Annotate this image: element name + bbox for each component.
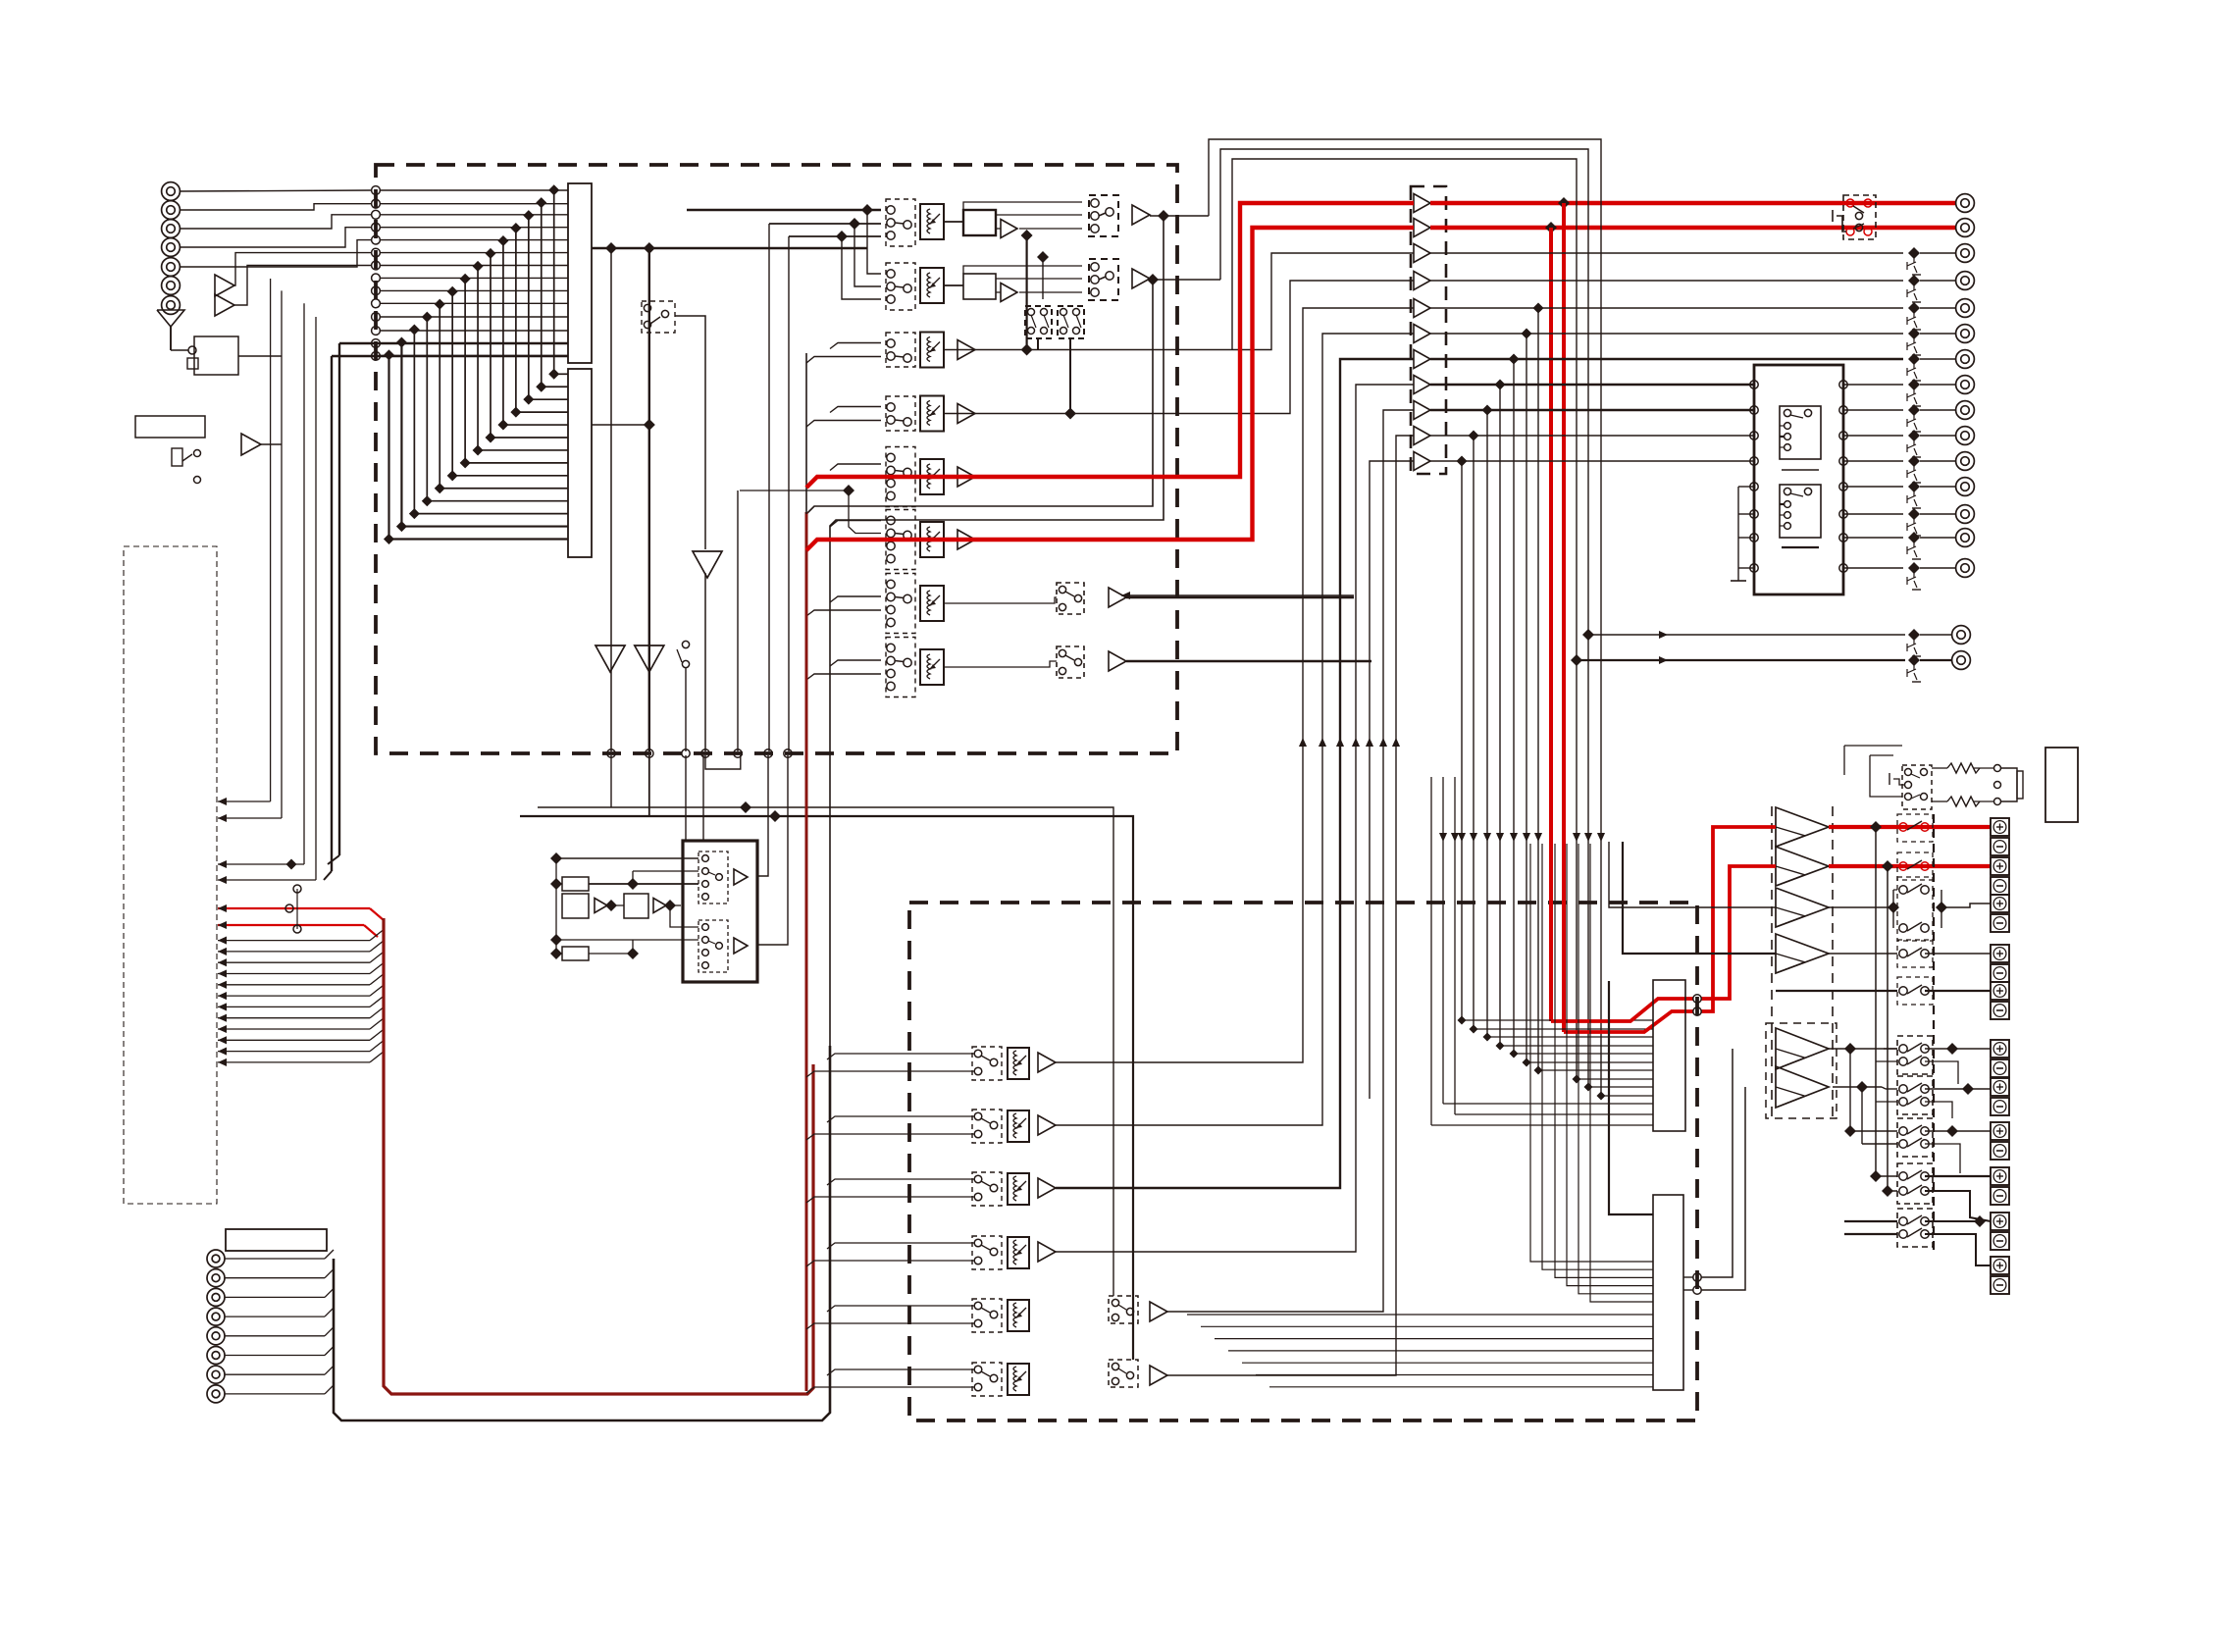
riser arrow 6 (1392, 738, 1400, 747)
input switch row8 (886, 638, 915, 697)
mute link 13 (1920, 567, 1955, 569)
mute 5 (1907, 353, 1921, 381)
bus row 8 (380, 277, 568, 279)
lower switch row4 (972, 1236, 1002, 1269)
mute link 3 (1920, 307, 1955, 309)
mute 11 (1907, 508, 1921, 536)
wire jack3 (180, 215, 372, 229)
buffer row5 (957, 467, 975, 487)
spk terminal 10 (1991, 1213, 2009, 1250)
block node R 524 (1839, 510, 1847, 518)
matrix tap 3 (523, 210, 568, 405)
phono buf B (734, 938, 748, 954)
selector input node 6 (372, 248, 381, 257)
bus row 4 (380, 227, 568, 229)
monitor bold 1 (328, 343, 380, 864)
analog input selector block (dashed) (376, 165, 1177, 753)
B feed riser 1 (1701, 1049, 1733, 1277)
red out 1 (1430, 201, 1955, 206)
bus arrow red 2 (218, 921, 378, 937)
bus arrow red 1 (218, 904, 384, 920)
block node R 579 (1839, 564, 1847, 572)
mute 7 (1907, 404, 1921, 432)
rec out jack 12 (1956, 529, 1975, 547)
rectB out 1 (1683, 1276, 1693, 1278)
matrix tap 4 (510, 223, 568, 418)
buf out 7 (1430, 358, 1903, 360)
row1 out wire (1150, 210, 1209, 222)
row2 out wire (1147, 274, 1220, 285)
lower relay row5 (1109, 1296, 1138, 1323)
red relay (tape2) (1833, 195, 1876, 239)
stair drop 7 (1457, 456, 1654, 1025)
riser t11 (1366, 461, 1414, 1099)
mute link 10 (1920, 486, 1955, 488)
rectB out 2 (1683, 1289, 1693, 1291)
spk relay group 4 (1897, 1163, 1933, 1204)
rec out L4 (218, 317, 316, 884)
selector input node 2 (372, 199, 381, 208)
nest v3 (1232, 159, 1653, 1084)
tape2 jack L (1956, 194, 1975, 213)
lower in A row2 (827, 1116, 974, 1122)
front AV bus (334, 1046, 830, 1420)
selector input node 1 (372, 186, 381, 195)
bus row 5 (380, 239, 568, 241)
spk terminal 4 (1991, 945, 2009, 982)
riser row1 (1056, 308, 1414, 1062)
front AV wire 3 (225, 1288, 334, 1297)
input jack J2 (162, 201, 181, 220)
mute 12 (1907, 532, 1921, 559)
down tri 1 (693, 551, 722, 578)
rectB lower in 7 (1269, 1386, 1653, 1388)
input vertical B (788, 236, 790, 751)
row7 link (944, 597, 1057, 603)
bus arrow 14 (218, 1052, 384, 1066)
down arrow wire 1 (704, 573, 706, 751)
main out L (1582, 629, 1952, 656)
line buffer 11 (1414, 452, 1430, 471)
eq buf 1 (595, 899, 607, 913)
amp3 in (1609, 842, 1776, 907)
stair drop 3 (1509, 354, 1654, 1058)
lower switch row2 (972, 1110, 1002, 1143)
rectB elbow 1 (1530, 844, 1653, 1262)
input switch row6 (886, 510, 915, 570)
rec out jack 4 (1956, 325, 1975, 343)
lower in B row5 (806, 1323, 974, 1329)
FM tuner box (135, 416, 205, 438)
tape sw (677, 641, 690, 667)
block node L 470 (1750, 457, 1758, 465)
bus row 11 (380, 316, 568, 318)
spk terminal 1 (1991, 818, 2009, 855)
buffer row2 (1001, 284, 1017, 302)
mute 4 (1907, 328, 1921, 355)
row6 red (806, 228, 1414, 550)
sur out 1 (1829, 1043, 1897, 1055)
main bus vertical (dark red) (384, 918, 813, 1394)
lower switch row1 (972, 1047, 1002, 1080)
band sw A tail (1037, 338, 1039, 350)
DSP block row2 (963, 274, 996, 299)
mute 13 (1907, 562, 1921, 590)
volume row2 (920, 268, 944, 303)
bus arrow 8 (218, 985, 384, 1000)
sub relay (1897, 940, 1991, 967)
block feed jack wires (1843, 385, 1903, 568)
block node R 470 (1839, 457, 1847, 465)
red riser (805, 512, 808, 1391)
feed circles (1693, 995, 1701, 1015)
selector input node 12 (372, 327, 381, 336)
front AV label box (226, 1229, 327, 1251)
volume row6 (920, 522, 944, 557)
down tri 2 (595, 645, 625, 672)
buf out 5 (1430, 307, 1903, 309)
power amp 1 (1776, 807, 1829, 847)
column2 out (592, 419, 655, 431)
rec out L1 (218, 279, 271, 805)
hp res 2 (1947, 797, 1980, 806)
spk relay group 5 (1897, 1209, 1933, 1247)
rec out jack 5 (1956, 350, 1975, 369)
tuner buffer 2 (215, 294, 234, 316)
center relay (1888, 877, 1991, 941)
red out amp2 (1829, 860, 1991, 872)
lower in B row4 (806, 1261, 974, 1266)
rectB elbow 2 (1542, 844, 1653, 1269)
power amp rail L (dashed) (1771, 806, 1773, 1121)
spk wiring (1844, 827, 1897, 1234)
lower vol row6 (1008, 1364, 1029, 1395)
front AV jack 7 (207, 1366, 225, 1383)
rectB bold elbow (1609, 981, 1653, 1214)
front AV wire 8 (225, 1385, 334, 1394)
lower vol row4 (1008, 1237, 1029, 1268)
riser row5 (1167, 410, 1414, 1312)
buffer row7 (1109, 588, 1126, 607)
red out amp1 (1829, 821, 1991, 833)
buffer row1 (1001, 220, 1017, 238)
monitor bold 2 (324, 356, 380, 880)
buf out 11 (1430, 460, 1754, 462)
rectB lower in 4 (1228, 1350, 1653, 1352)
stair drop 2 (1522, 329, 1654, 1067)
row4 to t4 (944, 281, 1414, 414)
lower switch row6 (972, 1363, 1002, 1396)
main out jack L (1952, 626, 1971, 645)
remote box (2045, 748, 2078, 822)
selector input node 11 (372, 313, 381, 322)
matrix tap 7 (473, 261, 568, 456)
block node L 579 (1750, 564, 1758, 572)
rectB lower in 5 (1242, 1362, 1653, 1364)
rec out jack 13 (1956, 559, 1975, 578)
tuner buffer 1 (215, 275, 234, 296)
main out R (1571, 654, 1952, 682)
left arrow line (1121, 592, 1354, 599)
eq rect 2 (562, 894, 589, 918)
buffer row4 (957, 404, 975, 424)
matrix tap 6 (486, 248, 569, 443)
amp4 out (1829, 953, 1897, 955)
row3 to t3 (944, 253, 1414, 350)
node p2 (784, 749, 792, 757)
spk relay group 3 (1897, 1118, 1933, 1157)
mute link 8 (1920, 435, 1955, 437)
hp jack (1994, 765, 2024, 805)
extra drop 3 (1431, 777, 1653, 1125)
bus arrow 13 (218, 1041, 384, 1056)
node rec2 (646, 749, 653, 757)
tape sw wire (685, 668, 687, 751)
line buffer 10 (1414, 427, 1430, 445)
line buffer 2 (1414, 219, 1430, 237)
rectB lower in 1 (1187, 1314, 1653, 1316)
red drop R (1545, 222, 1557, 1021)
wire jack7 (234, 266, 372, 306)
rec out jack 7 (1956, 401, 1975, 420)
bus arrow 10 (218, 1007, 384, 1022)
rec out jack 1 (1956, 244, 1975, 263)
bus arrow 12 (218, 1029, 384, 1044)
record buffer column (dashed) (1411, 186, 1446, 474)
pre-out block (1754, 365, 1843, 594)
riser row2 (1056, 334, 1414, 1125)
crossover v1 (1021, 230, 1033, 356)
riser row3 (1056, 359, 1414, 1188)
input jack J3 (162, 220, 181, 238)
rec select row8 (1057, 646, 1084, 678)
spk terminal 5 (1991, 982, 2009, 1019)
bus row 9 (380, 289, 568, 291)
bus arrow 6 (218, 963, 384, 978)
volume row7 (920, 586, 944, 621)
selector input node 8 (372, 274, 381, 283)
front AV jack 6 (207, 1347, 225, 1365)
node b5 (734, 749, 742, 757)
row6 input wires (830, 521, 881, 528)
block node R 392 (1839, 381, 1847, 388)
FM antenna (157, 310, 184, 350)
wire tuner box out (238, 355, 282, 357)
lower buf row4 (1038, 1242, 1056, 1262)
riser arrow 4 (1352, 738, 1360, 747)
band switch (642, 301, 675, 333)
amp4 in (1623, 842, 1776, 954)
matrix tap 14 (384, 349, 568, 544)
phono out 1 (757, 755, 768, 876)
node rec1 (607, 749, 615, 757)
mute 9 (1907, 455, 1921, 483)
input jack J1 (162, 182, 181, 201)
input switch row3 (886, 333, 915, 367)
row8 link (944, 661, 1057, 667)
rec out L2 (218, 290, 282, 822)
lower in A row5 (827, 1306, 974, 1312)
stair drop 1 (1533, 303, 1654, 1075)
out buffer row2 (1132, 269, 1150, 288)
band sw A (1025, 306, 1052, 338)
spk terminal 9 (1991, 1167, 2009, 1205)
selector input node 7 (372, 261, 381, 270)
buf out 8 (1430, 384, 1754, 386)
bus row 3 (380, 214, 568, 216)
front AV wire 7 (225, 1366, 334, 1374)
red feed R (1551, 999, 1693, 1021)
block node R 496 (1839, 483, 1847, 490)
front AV jack 4 (207, 1308, 225, 1325)
rec out jack 9 (1956, 452, 1975, 471)
mute 6 (1907, 379, 1921, 406)
front AV wire 6 (225, 1347, 334, 1356)
input switch row5 (886, 447, 915, 507)
rec out jack 6 (1956, 376, 1975, 394)
U link below edge (705, 755, 741, 769)
bus row 1 (380, 189, 568, 191)
lower buf row1 (1038, 1053, 1056, 1072)
rec out jack 8 (1956, 427, 1975, 445)
lower buf row5 (1150, 1302, 1167, 1321)
buf out 9 (1430, 409, 1754, 411)
hp res 1 (1947, 763, 1980, 773)
front AV jack 5 (207, 1327, 225, 1345)
box2 out node 2 (1693, 1286, 1701, 1294)
matrix tap 10 (435, 299, 568, 494)
block node L 548 (1750, 534, 1758, 542)
row5 red (806, 203, 1414, 488)
eq rect 1 (562, 877, 589, 891)
red feed L2 (1701, 827, 1776, 1011)
B feed riser 2 (1701, 1087, 1745, 1290)
bus row 10 (380, 302, 568, 304)
loop line 4 (black riser) (830, 216, 1164, 1046)
row1 input wires (687, 204, 881, 242)
spk outs (1925, 1043, 1991, 1265)
selector input node 10 (372, 299, 381, 308)
lower in A row6 (827, 1369, 974, 1375)
box2 out node 1 (1693, 1273, 1701, 1281)
nest v2 (1220, 149, 1653, 1092)
lower vol row3 (1008, 1173, 1029, 1205)
block node L 392 (1750, 381, 1758, 388)
bass mgmt rect B (1653, 1195, 1683, 1390)
matrix tap 2 (536, 197, 568, 392)
selector out bus (592, 242, 867, 254)
bus row 12 (380, 330, 568, 332)
row2 dsp wires (944, 266, 1082, 292)
rec bus vertical 2 (648, 248, 650, 751)
rec out L3 (218, 303, 304, 869)
bus row 2 (380, 203, 568, 205)
block node L 444 (1750, 432, 1758, 439)
block node L 496 (1750, 483, 1758, 490)
eq top wires (520, 801, 1133, 1360)
row1 dsp wires (944, 202, 1082, 229)
AM loop box (171, 336, 238, 375)
spk relay group 2 (1897, 1076, 1933, 1114)
crossover v2 (1037, 251, 1049, 299)
spk terminal 6 (1991, 1040, 2009, 1077)
red drop L (1558, 197, 1570, 1032)
monitor jumper (285, 885, 301, 933)
eq buf 2 (653, 899, 666, 913)
rectB lower in 6 (1256, 1374, 1653, 1376)
spk relay FA L (1897, 814, 1933, 842)
surround amp box (dashed) (1766, 1023, 1837, 1118)
lower in A row3 (827, 1179, 974, 1185)
bus arrow 3 (218, 930, 384, 945)
block node L 418 (1750, 406, 1758, 414)
line buffer 5 (1414, 299, 1430, 318)
front AV wire 1 (225, 1250, 334, 1259)
node b4 (682, 749, 690, 757)
block node R 548 (1839, 534, 1847, 542)
row4 input wires (806, 407, 881, 428)
selector column 1 (568, 183, 592, 363)
front AV wire 5 (225, 1327, 334, 1336)
mute 2 (1907, 275, 1921, 302)
bus arrow 5 (218, 952, 384, 966)
rectB lower in 3 (1215, 1338, 1653, 1340)
bus row 7 (380, 265, 568, 267)
phono out 2 (757, 755, 788, 945)
volume row1 (920, 204, 944, 239)
buffer row8 (1109, 651, 1126, 671)
rec out jack 3 (1956, 299, 1975, 318)
bus row 6 (380, 252, 568, 254)
stair drop 6 (1469, 431, 1654, 1034)
row1 branch drops (842, 210, 881, 299)
tape2 jack R (1956, 219, 1975, 237)
node p1 (764, 749, 772, 757)
lower in A row4 (827, 1243, 974, 1249)
volume row4 (920, 396, 944, 432)
power amp 2 (1776, 847, 1829, 886)
rec select row2 (1089, 259, 1118, 300)
lower in B row6 (806, 1387, 974, 1393)
row5 input wires (830, 464, 881, 471)
buf out 10 (1430, 435, 1754, 437)
mute 1 (1907, 247, 1921, 275)
line buffer 4 (1414, 272, 1430, 290)
red out 2 (1430, 226, 1955, 231)
matrix tap 8 (460, 274, 568, 469)
selector input node 9 (372, 286, 381, 295)
block node R 418 (1839, 406, 1847, 414)
spk terminal 3 (1991, 895, 2009, 932)
block node L 524 (1750, 510, 1758, 518)
line buffer 7 (1414, 350, 1430, 369)
mute link 12 (1920, 537, 1955, 539)
wire jack1 (180, 190, 372, 191)
buffer row3 (957, 340, 975, 360)
mute link 11 (1920, 513, 1955, 515)
line buffer 9 (1414, 401, 1430, 420)
spk terminal 7 (1991, 1078, 2009, 1115)
front AV jack 8 (207, 1385, 225, 1403)
phono sel B (699, 920, 728, 972)
mute link 2 (1920, 280, 1955, 282)
front AV jack 2 (207, 1269, 225, 1287)
hp relay (1889, 765, 1932, 809)
phono sub box (bold) (683, 841, 757, 982)
mute 10 (1907, 481, 1921, 508)
main out jack R (1952, 651, 1971, 670)
mute link 1 (1920, 252, 1955, 254)
